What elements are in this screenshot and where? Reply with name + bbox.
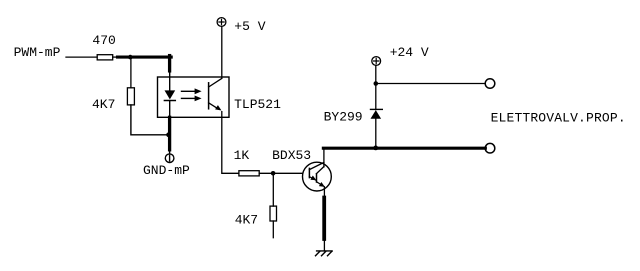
resistor 4K7 (base pull-down): [270, 206, 277, 221]
transistor Q1 BDX53 darlington: [303, 162, 332, 191]
node terminal lower (elettrovalvola -): [485, 143, 495, 153]
wire thick PWM net horizontal: [118, 56, 172, 59]
node PWM-mP label: [14, 45, 61, 60]
wire thick collector rail: [323, 147, 485, 150]
svg-text:+24 V: +24 V: [390, 45, 429, 60]
svg-text:TLP521: TLP521: [234, 97, 281, 112]
junction GND-mP net: [166, 132, 171, 137]
wire 4K7 bottom stub: [272, 221, 274, 238]
power +5 V symbol: [217, 18, 226, 27]
LED of TLP521: [164, 90, 175, 100]
power +24 V symbol: [372, 57, 381, 66]
svg-text:ELETTROVALV.PROP.: ELETTROVALV.PROP.: [491, 111, 626, 126]
optocoupler U1 TLP521 body: [158, 77, 230, 117]
svg-text:470: 470: [92, 33, 115, 48]
resistor 1K value label: [234, 148, 250, 163]
power +5 V label: [234, 19, 265, 34]
svg-text:+5 V: +5 V: [234, 19, 265, 34]
resistor 4K7 value label (base): [235, 212, 258, 227]
wire junction down to 4K7: [272, 173, 274, 206]
wire BDX53 collector up to rail: [323, 148, 325, 167]
wire emitter to ground symbol: [323, 239, 325, 251]
wire resistor 470 to thick net: [113, 56, 119, 58]
resistor 4K7 value label (left): [92, 97, 115, 112]
resistor 1K: [239, 171, 259, 176]
transistor BDX53 value label: [272, 148, 311, 163]
node GND-mP label: [143, 163, 190, 178]
wire 4K7 bottom to GND-mP junction: [131, 105, 169, 135]
node terminal upper (elettrovalvola +): [485, 79, 495, 89]
wire junction down to 4K7: [130, 57, 132, 88]
diode D1 BY299: [371, 109, 383, 118]
light arrows of TLP521: [182, 88, 202, 101]
wire +5V down to collector: [221, 27, 223, 79]
wire emitter thick segment: [322, 198, 326, 240]
wire diode anode to rail: [375, 119, 377, 149]
svg-text:GND-mP: GND-mP: [143, 163, 190, 178]
ground: [316, 251, 333, 256]
wire 1K to BDX53 base: [259, 172, 303, 174]
svg-text:BY299: BY299: [324, 110, 363, 125]
junction +24 net: [374, 81, 379, 86]
svg-text:PWM-mP: PWM-mP: [14, 45, 61, 60]
wire +24 junction to upper terminal: [376, 83, 485, 85]
wire +24V down to junction: [375, 66, 377, 84]
resistor 470 value label: [92, 33, 115, 48]
junction base / 4K7: [271, 171, 276, 176]
diode BY299 value label: [324, 110, 363, 125]
junction PWM net / 4K7: [128, 55, 133, 60]
wire emitter down and to 1K: [222, 112, 239, 174]
wire thick LED cathode to GND terminal: [169, 101, 171, 150]
wire emitter to ground (thin): [323, 187, 325, 198]
node ELETTROVALV.PROP. label: [491, 111, 626, 126]
wire junction down to diode cathode: [375, 84, 377, 110]
power +24 V label: [390, 45, 429, 60]
junction diode / rail: [373, 146, 378, 151]
svg-text:BDX53: BDX53: [272, 148, 311, 163]
node GND-mP terminal: [165, 154, 174, 163]
wire thin into GND terminal: [169, 150, 171, 154]
wire thick LED anode vertical: [168, 56, 171, 91]
resistor 470: [97, 55, 113, 60]
svg-text:1K: 1K: [234, 148, 250, 163]
wire PWM-mP input: [66, 56, 97, 58]
phototransistor of TLP521: [209, 78, 222, 110]
TLP521 value label: [234, 97, 281, 112]
svg-text:4K7: 4K7: [235, 212, 258, 227]
resistor 4K7 (pull-down on PWM): [127, 88, 134, 105]
svg-text:4K7: 4K7: [92, 97, 115, 112]
